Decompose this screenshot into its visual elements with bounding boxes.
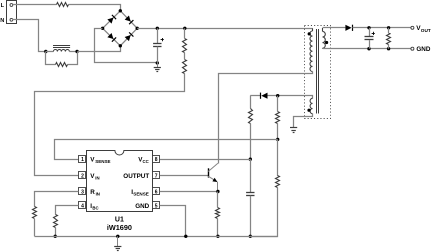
svg-text:SENSE: SENSE: [95, 159, 110, 164]
node IBC rail: [54, 235, 57, 238]
resistor R2 startup upper: [183, 39, 187, 53]
wire primary top lead: [312, 28, 314, 31]
svg-text:iW1690: iW1690: [107, 223, 132, 232]
pin 6 box: [153, 188, 160, 196]
svg-text:6: 6: [155, 189, 158, 195]
svg-text:1: 1: [81, 157, 84, 163]
node R4 top: [387, 26, 390, 29]
wire ground rail: [35, 236, 278, 238]
bridge diode D1: [107, 15, 116, 24]
pin label OUTPUT: [123, 173, 149, 180]
wire aux bottom to ground: [294, 114, 313, 128]
wire startup top lead: [184, 28, 186, 38]
node choke right: [75, 50, 78, 53]
svg-text:BC: BC: [92, 206, 98, 211]
node vcc cap rail: [249, 235, 252, 238]
pin 3 box: [79, 188, 86, 196]
node bridge right: [136, 27, 139, 30]
svg-text:2: 2: [81, 174, 84, 180]
pin label VIN: [90, 173, 99, 181]
winding T1 primary: [310, 31, 313, 71]
pin label ISENSE: [131, 189, 149, 197]
phase dot auxiliary: [307, 109, 310, 112]
wire vsense tap to pin1: [55, 140, 278, 160]
label VOUT: [416, 25, 431, 33]
wire bulk cap bottom lead: [157, 47, 159, 63]
wire output bottom rail: [323, 48, 411, 50]
node pin5 rail: [184, 235, 187, 238]
wire RIN pin3: [35, 192, 79, 207]
node aux: [276, 94, 279, 97]
svg-text:GND: GND: [135, 203, 149, 210]
resistor R8 current sense: [216, 208, 220, 219]
node Rsense rail: [216, 235, 219, 238]
wire secondary bottom lead: [322, 47, 324, 50]
svg-text:R: R: [90, 189, 95, 196]
node bridge top: [119, 9, 122, 12]
terminal VOUT: [411, 26, 414, 29]
polarity plus C1: [161, 38, 164, 41]
wire vsense mid: [277, 123, 279, 139]
winding T1 auxiliary: [310, 98, 312, 113]
svg-text:IN: IN: [95, 176, 99, 181]
svg-text:7: 7: [155, 174, 158, 180]
pin 4 box: [79, 202, 86, 210]
resistor R9 RIN: [33, 207, 37, 219]
pin label IBC: [90, 203, 98, 211]
wire bulk cap top lead: [157, 28, 159, 43]
wire ISENSE pin6: [160, 191, 218, 193]
wire DC minus: [95, 29, 158, 63]
wire damper left leg: [46, 52, 56, 65]
wire N to choke: [13, 20, 46, 52]
node vsense tap: [276, 138, 279, 141]
wire R10 to rail: [55, 228, 57, 237]
pin 2 box: [79, 172, 86, 180]
AC input connector J1: [7, 1, 17, 24]
wire choke lead left: [46, 51, 54, 53]
svg-text:SENSE: SENSE: [133, 191, 149, 196]
label N: [0, 18, 4, 24]
ground primary bulk: [154, 63, 161, 72]
wire vcc diode right: [268, 95, 278, 97]
svg-text:N: N: [0, 18, 4, 24]
resistor R7 vsense lower: [276, 176, 280, 188]
bridge diode D4: [125, 32, 134, 41]
wire choke to bridge bottom: [78, 46, 121, 52]
wire OUTPUT to base: [160, 175, 208, 177]
node bulk cap plus: [156, 27, 159, 30]
wire R4 top lead: [388, 28, 390, 33]
inductor L1 choke: [53, 46, 70, 52]
wire damper right leg: [68, 52, 78, 65]
resistor R1 damper: [56, 63, 68, 67]
svg-text:3: 3: [81, 189, 84, 195]
pin 7 box: [153, 172, 160, 180]
pin 5 box: [153, 202, 160, 210]
wire vcc cap to rail: [250, 196, 252, 237]
resistor R10 IBC: [54, 215, 58, 228]
wire fuse to bridge top: [69, 5, 121, 11]
wire vsense lower lead: [277, 139, 279, 175]
wire L to fuse: [13, 4, 57, 6]
wire vsense to rail: [251, 188, 278, 237]
wire R9 to rail: [34, 219, 36, 236]
ground auxiliary: [290, 128, 297, 133]
pin 1 box: [79, 156, 86, 164]
svg-text:CC: CC: [143, 159, 149, 164]
node bridge left: [101, 27, 104, 30]
fusible resistor RF1: [57, 3, 69, 7]
wire diode to Vout: [352, 27, 411, 29]
wire vsense upper lead: [277, 96, 279, 112]
node rail ground: [116, 235, 119, 238]
svg-text:4: 4: [81, 204, 84, 210]
svg-text:IN: IN: [96, 191, 100, 196]
ground controller: [114, 236, 121, 250]
pin label VCC: [138, 157, 149, 165]
winding T1 secondary: [323, 31, 326, 48]
capacitor C5 output: [365, 37, 374, 40]
wire IBC pin4: [56, 206, 79, 215]
polarity plus C5: [372, 32, 375, 35]
svg-text:OUTPUT: OUTPUT: [123, 173, 149, 180]
svg-text:8: 8: [155, 157, 158, 163]
wire GND pin5: [160, 206, 186, 237]
terminal GND out: [411, 47, 414, 50]
phase dot primary: [308, 32, 311, 35]
wire vcc to cap: [250, 159, 252, 192]
node R4 bottom: [387, 47, 390, 50]
wire VCC pin8: [160, 159, 251, 161]
capacitor C1 bulk: [153, 44, 161, 47]
wire choke lead right: [69, 51, 77, 53]
wire vcc chain top: [250, 96, 252, 109]
node bulk cap minus: [156, 61, 159, 64]
wire aux top lead: [278, 96, 313, 99]
resistor R6 vsense upper: [276, 112, 280, 124]
node vcc: [249, 158, 252, 161]
op-amp U1 body: [87, 151, 153, 212]
transformer T1 shield box: [305, 26, 331, 119]
wire C5 bottom lead: [369, 40, 371, 49]
bridge diode D3: [107, 33, 116, 42]
bridge BR1 frame: [103, 11, 138, 46]
wire Rsense to rail: [217, 219, 219, 237]
pin label RIN: [90, 189, 100, 197]
wire secondary top lead: [322, 28, 324, 32]
label iW1690: [107, 223, 132, 232]
node C5 top: [367, 26, 370, 29]
transistor Q1: [208, 163, 218, 191]
capacitor C4 vcc: [246, 193, 254, 196]
node choke left: [44, 50, 47, 53]
diode D5 output rectifier: [345, 25, 352, 31]
node emitter sense: [216, 190, 219, 193]
bridge diode D2: [125, 15, 134, 24]
pin label VSENSE: [90, 157, 110, 165]
pin 8 box: [153, 156, 160, 164]
node bridge bottom: [119, 44, 122, 47]
wire DC plus rail: [137, 28, 312, 30]
wire R4 bottom lead: [388, 45, 390, 49]
wire startup to VIN: [35, 74, 185, 176]
phase dot secondary: [325, 41, 328, 44]
wire primary bottom to switch: [219, 72, 313, 164]
label U1: [115, 216, 124, 223]
transformer core: [317, 29, 319, 114]
wire between R2 R3: [184, 53, 186, 60]
label L: [1, 3, 5, 9]
svg-text:GND: GND: [416, 46, 430, 53]
pin label GND: [135, 203, 149, 210]
wire vcc chain mid: [250, 123, 252, 159]
wire C5 top lead: [369, 28, 371, 37]
svg-text:5: 5: [155, 204, 158, 210]
wire secondary to diode: [323, 27, 346, 29]
wire vcc diode left: [250, 95, 260, 97]
node startup tap: [183, 27, 186, 30]
resistor R4 preload: [387, 34, 391, 45]
svg-text:OUT: OUT: [421, 28, 431, 33]
wire emitter to Rsense: [217, 192, 219, 208]
label GND out: [416, 46, 430, 53]
resistor R5 vcc series: [249, 109, 253, 124]
resistor R3 startup lower: [183, 60, 187, 74]
svg-text:L: L: [1, 3, 5, 9]
diode D6 vcc rectifier: [261, 93, 268, 99]
node C5 bottom: [367, 47, 370, 50]
